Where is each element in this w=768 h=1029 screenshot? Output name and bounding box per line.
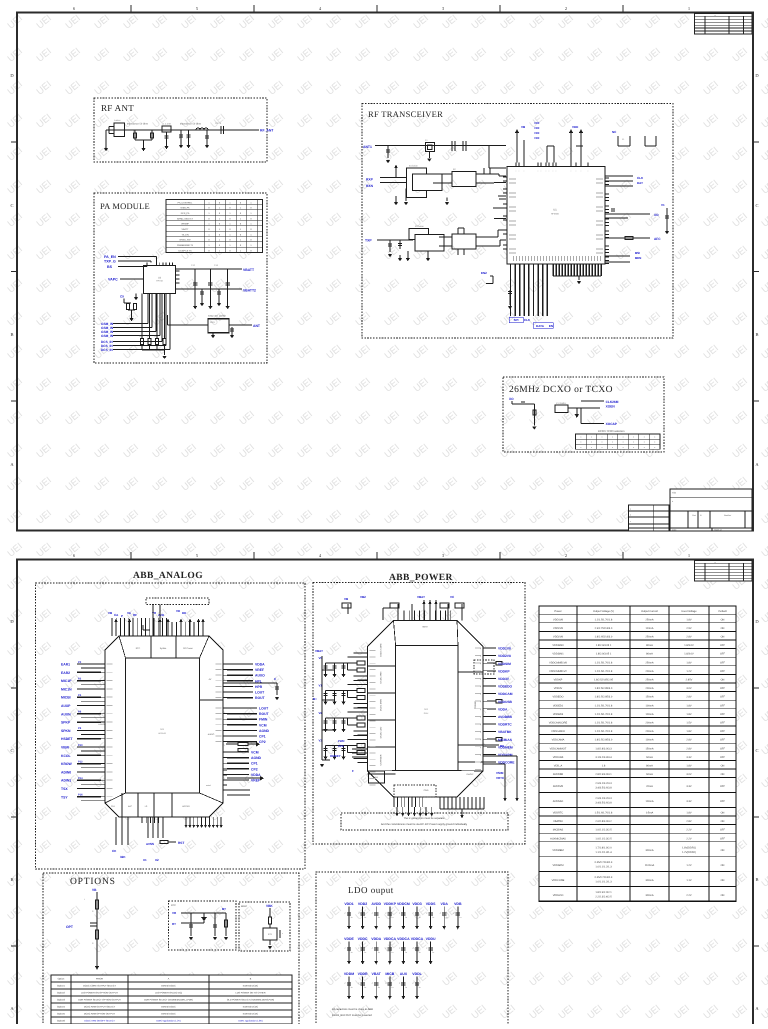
svg-text:i-ch/VBa: i-ch/VBa bbox=[98, 723, 106, 726]
svg-text:X1 26MHz: X1 26MHz bbox=[556, 402, 566, 405]
svg-text:1.8/2.5/2.85/3.0: 1.8/2.5/2.85/3.0 bbox=[595, 696, 613, 699]
svg-text:Default: Default bbox=[718, 610, 726, 613]
svg-text:x: x bbox=[623, 441, 624, 444]
svg-text:RT: RT bbox=[172, 922, 176, 926]
svg-text:x: x bbox=[580, 436, 581, 439]
svg-text:p: p bbox=[480, 747, 481, 749]
svg-text:110mA: 110mA bbox=[646, 627, 654, 630]
svg-text:BS: BS bbox=[107, 265, 113, 269]
svg-text:AFC: AFC bbox=[654, 237, 661, 241]
svg-text:Used Voltage: Used Voltage bbox=[681, 610, 697, 613]
svg-text:EAR1: EAR1 bbox=[61, 663, 70, 667]
svg-text:p: p bbox=[480, 716, 481, 718]
svg-text:PA_EN: PA_EN bbox=[104, 255, 116, 259]
svg-text:VDDED1: VDDED1 bbox=[553, 704, 564, 707]
svg-text:1.8V: 1.8V bbox=[686, 618, 692, 621]
svg-text:AVDDBB: AVDDBB bbox=[498, 715, 512, 719]
svg-text:OFF: OFF bbox=[720, 722, 726, 725]
svg-text:3.3V: 3.3V bbox=[686, 785, 692, 788]
svg-text:ON: ON bbox=[721, 812, 725, 815]
svg-text:Output Voltage (V): Output Voltage (V) bbox=[593, 610, 614, 613]
svg-text:C9: C9 bbox=[120, 295, 124, 299]
svg-text:External DCDC: External DCDC bbox=[243, 1013, 259, 1016]
svg-text:B3 balun: B3 balun bbox=[415, 225, 424, 228]
svg-text:OFF: OFF bbox=[720, 756, 726, 759]
svg-text:AUDIO: AUDIO bbox=[208, 733, 215, 736]
svg-text:1u: 1u bbox=[391, 986, 393, 989]
svg-text:X2: X2 bbox=[155, 858, 159, 862]
svg-text:AUXN: AUXN bbox=[61, 712, 71, 716]
svg-text:1.2/1.5/1.70/1.8: 1.2/1.5/1.70/1.8 bbox=[595, 670, 613, 673]
svg-text:1u: 1u bbox=[391, 951, 393, 954]
svg-text:1.2/1.5/1.70/1.8: 1.2/1.5/1.70/1.8 bbox=[595, 713, 613, 716]
svg-text:x: x bbox=[644, 436, 645, 439]
svg-text:300mA: 300mA bbox=[645, 849, 653, 852]
svg-text:OFF: OFF bbox=[720, 747, 726, 750]
svg-text:1.8V: 1.8V bbox=[686, 812, 692, 815]
svg-text:2.85V: 2.85V bbox=[686, 679, 693, 682]
svg-text:ABB_POWER: ABB_POWER bbox=[389, 573, 453, 583]
svg-text:C3 C4: C3 C4 bbox=[215, 122, 222, 125]
svg-text:VBATT: VBATT bbox=[182, 228, 190, 231]
svg-text:x: x bbox=[580, 441, 581, 444]
svg-text:PRIOR: PRIOR bbox=[96, 978, 104, 981]
svg-text:3.3V: 3.3V bbox=[686, 800, 692, 803]
svg-text:P10: P10 bbox=[78, 744, 83, 747]
svg-text:80mA: 80mA bbox=[646, 644, 653, 647]
svg-text:GSM_IN: GSM_IN bbox=[101, 334, 114, 338]
svg-text:BSI: BSI bbox=[635, 251, 640, 255]
svg-text:1.8V: 1.8V bbox=[686, 661, 692, 664]
svg-text:VDDRTC: VDDRTC bbox=[498, 723, 512, 727]
svg-text:AVD: AVD bbox=[158, 613, 165, 617]
svg-text:x: x bbox=[591, 436, 592, 439]
svg-text:1u: 1u bbox=[405, 986, 407, 989]
svg-text:1.8V: 1.8V bbox=[686, 765, 692, 768]
svg-text:1u: 1u bbox=[391, 916, 393, 919]
svg-text:CLK: CLK bbox=[524, 318, 531, 322]
svg-text:P6: P6 bbox=[78, 711, 82, 714]
svg-text:B+: B+ bbox=[313, 697, 317, 701]
svg-text:OFF: OFF bbox=[720, 837, 726, 840]
svg-text:VAPC: VAPC bbox=[108, 278, 118, 282]
svg-text:OPT: OPT bbox=[66, 925, 74, 929]
svg-text:OFF: OFF bbox=[720, 661, 726, 664]
svg-text:AVSS: AVSS bbox=[146, 842, 154, 846]
svg-text:200mA: 200mA bbox=[645, 730, 653, 733]
svg-text:VRF: VRF bbox=[534, 131, 540, 135]
svg-text:swap ant. Switch: swap ant. Switch bbox=[208, 315, 227, 318]
svg-text:OFF: OFF bbox=[720, 687, 726, 690]
svg-text:ON: ON bbox=[721, 627, 725, 630]
svg-text:DCS_IN: DCS_IN bbox=[101, 348, 113, 352]
svg-text:VBAT: VBAT bbox=[417, 595, 425, 599]
svg-text:CP1: CP1 bbox=[251, 762, 258, 766]
svg-text:1.9/2.1/2.3/2.5: 1.9/2.1/2.3/2.5 bbox=[595, 829, 612, 832]
svg-text:VDD2V8: VDD2V8 bbox=[553, 627, 563, 630]
svg-text:B: B bbox=[755, 332, 758, 337]
svg-text:wrtxd: wrtxd bbox=[206, 784, 211, 787]
svg-text:B: B bbox=[755, 877, 758, 882]
svg-text:Number: Number bbox=[724, 514, 731, 517]
svg-text:VDDCAMCORE: VDDCAMCORE bbox=[549, 722, 568, 725]
svg-text:26MHz DCXO or TCXO: 26MHz DCXO or TCXO bbox=[509, 385, 613, 395]
svg-text:AGND: AGND bbox=[251, 756, 262, 760]
svg-text:Option1: Option1 bbox=[57, 985, 66, 988]
svg-text:CP2: CP2 bbox=[251, 767, 258, 771]
svg-text:VDDCAMA: VDDCAMA bbox=[552, 739, 565, 742]
svg-text:p: p bbox=[480, 671, 481, 673]
svg-text:ADIN1: ADIN1 bbox=[61, 779, 71, 783]
svg-text:2.9/2.75/2.8/3.0: 2.9/2.75/2.8/3.0 bbox=[595, 627, 613, 630]
svg-text:OFF: OFF bbox=[720, 730, 726, 733]
svg-text:ON: ON bbox=[721, 864, 725, 867]
svg-text:100mA: 100mA bbox=[645, 800, 653, 803]
svg-text:DDR2_BUFOUT must be powered: DDR2_BUFOUT must be powered bbox=[332, 1014, 372, 1017]
svg-text:RF_ANT: RF_ANT bbox=[260, 129, 274, 133]
svg-text:OFF: OFF bbox=[720, 785, 726, 788]
svg-text:RF6500: RF6500 bbox=[551, 212, 560, 215]
svg-text:x: x bbox=[602, 436, 603, 439]
svg-text:x: x bbox=[654, 441, 655, 444]
svg-text:VDD2V8: VDD2V8 bbox=[553, 636, 563, 639]
svg-text:VDD1V8: VDD1V8 bbox=[498, 647, 511, 651]
svg-text:VDDA: VDDA bbox=[371, 937, 381, 941]
svg-text:VRF: VRF bbox=[534, 126, 540, 130]
svg-text:AVDDBB: AVDDBB bbox=[553, 773, 564, 776]
svg-text:DDR POWER SELECT (VDDMEM,DDR1,: DDR POWER SELECT (VDDMEM,DDR1,LPDR) bbox=[144, 999, 193, 1002]
svg-text:GSM850/900 TX: GSM850/900 TX bbox=[177, 244, 194, 247]
svg-text:DCS/PCS TX: DCS/PCS TX bbox=[178, 249, 192, 252]
svg-text:x: x bbox=[633, 441, 634, 444]
svg-text:X1: X1 bbox=[143, 858, 147, 862]
svg-text:2: 2 bbox=[565, 553, 567, 558]
svg-text:p: p bbox=[480, 709, 481, 711]
svg-text:All capacitors must be close t: All capacitors must be close to ABB bbox=[332, 1008, 373, 1011]
svg-text:1.8/3.0V: 1.8/3.0V bbox=[684, 653, 694, 656]
svg-text:VDDED3: VDDED3 bbox=[553, 713, 564, 716]
svg-text:1.7/1.8/1.9/2.0: 1.7/1.8/1.9/2.0 bbox=[595, 846, 612, 849]
svg-text:Option5: Option5 bbox=[57, 1013, 66, 1016]
svg-text:RXP: RXP bbox=[366, 178, 374, 182]
svg-text:ON: ON bbox=[721, 679, 725, 682]
svg-text:VDDA: VDDA bbox=[255, 663, 265, 667]
svg-text:1u: 1u bbox=[419, 951, 421, 954]
svg-text:VDDM: VDDM bbox=[344, 972, 354, 976]
svg-text:2.8/2.9/3.0/3.1: 2.8/2.9/3.0/3.1 bbox=[595, 773, 612, 776]
svg-text:1.9/2.1/2.3/2.5: 1.9/2.1/2.3/2.5 bbox=[595, 837, 612, 840]
svg-text:1.0/1.1/1.2/1.3: 1.0/1.1/1.2/1.3 bbox=[595, 866, 612, 869]
svg-text:L1 2.2nH: L1 2.2nH bbox=[162, 123, 171, 126]
svg-text:AVDDVB: AVDDVB bbox=[553, 785, 564, 788]
svg-text:EN2: EN2 bbox=[481, 271, 487, 275]
svg-text:Sheet of: Sheet of bbox=[714, 528, 722, 531]
svg-text:3.0V: 3.0V bbox=[686, 687, 692, 690]
svg-text:VDDCA: VDDCA bbox=[397, 937, 410, 941]
svg-text:2.5V: 2.5V bbox=[686, 627, 692, 630]
svg-text:1.2V(DDR2): 1.2V(DDR2) bbox=[682, 851, 696, 854]
svg-text:2.2V: 2.2V bbox=[686, 894, 692, 897]
svg-text:RST: RST bbox=[178, 841, 184, 845]
svg-text:EAR2: EAR2 bbox=[61, 671, 70, 675]
svg-text:x: x bbox=[591, 446, 592, 449]
svg-text:VB: VB bbox=[92, 888, 97, 892]
svg-text:U1: U1 bbox=[553, 208, 557, 211]
svg-text:AD6548: AD6548 bbox=[158, 732, 166, 735]
svg-text:1.2/1.5/1.70/1.8: 1.2/1.5/1.70/1.8 bbox=[595, 722, 613, 725]
svg-text:VDA: VDA bbox=[441, 902, 449, 906]
svg-text:1.8/2.9/3.05 1: 1.8/2.9/3.05 1 bbox=[596, 653, 612, 656]
svg-text:1.8: 1.8 bbox=[602, 765, 606, 768]
svg-text:VDDMEM: VDDMEM bbox=[552, 849, 563, 852]
svg-text:100mA: 100mA bbox=[645, 704, 653, 707]
svg-text:1.2/1.5/1.70/1.8: 1.2/1.5/1.70/1.8 bbox=[595, 730, 613, 733]
svg-text:x: x bbox=[633, 436, 634, 439]
svg-text:P0: P0 bbox=[78, 661, 82, 664]
svg-text:VDDA: VDDA bbox=[498, 707, 508, 711]
svg-text:p: p bbox=[480, 762, 481, 764]
svg-text:VDD3V: VDD3V bbox=[498, 677, 510, 681]
svg-text:AVC: AVC bbox=[128, 805, 133, 808]
svg-text:MICBIAS: MICBIAS bbox=[553, 829, 564, 832]
svg-text:AUX: AUX bbox=[400, 972, 408, 976]
svg-text:x: x bbox=[644, 441, 645, 444]
svg-text:300mA: 300mA bbox=[645, 894, 653, 897]
svg-text:1.0/1.1/1.2/1.3: 1.0/1.1/1.2/1.3 bbox=[595, 881, 612, 884]
svg-text:VDDE: VDDE bbox=[344, 937, 354, 941]
svg-text:3.1/3.2/3.3/3.4: 3.1/3.2/3.3/3.4 bbox=[595, 756, 612, 759]
svg-text:a: a bbox=[715, 15, 716, 17]
svg-text:1.1V: 1.1V bbox=[686, 879, 692, 882]
svg-text:1u: 1u bbox=[351, 916, 353, 919]
svg-text:1.5V: 1.5V bbox=[686, 722, 692, 725]
svg-text:POWER: POWER bbox=[474, 700, 477, 709]
svg-text:VDDSIM: VDDSIM bbox=[498, 662, 511, 666]
svg-text:C: C bbox=[755, 748, 758, 753]
svg-text:Impedance 50 Ohm: Impedance 50 Ohm bbox=[180, 123, 201, 126]
svg-text:P2: P2 bbox=[78, 677, 82, 680]
svg-text:Impedance 50 Ohm: Impedance 50 Ohm bbox=[127, 123, 148, 126]
svg-text:MICBIAS: MICBIAS bbox=[498, 738, 513, 742]
svg-text:OFF: OFF bbox=[720, 829, 726, 832]
svg-text:Date:: Date: bbox=[672, 528, 677, 531]
svg-text:VREF: VREF bbox=[251, 779, 260, 783]
svg-text:ON: ON bbox=[721, 820, 725, 823]
svg-text:1.8V: 1.8V bbox=[686, 713, 692, 716]
svg-text:1u: 1u bbox=[364, 951, 366, 954]
svg-text:3.4/3.5/3.6/3.8: 3.4/3.5/3.6/3.8 bbox=[595, 801, 612, 804]
svg-text:DCDC ARM OPTION OUTPUT: DCDC ARM OPTION OUTPUT bbox=[84, 1013, 116, 1016]
svg-text:p: p bbox=[480, 732, 481, 734]
svg-text:VDDL: VDDL bbox=[412, 972, 422, 976]
svg-text:AUXP: AUXP bbox=[61, 704, 71, 708]
svg-text:3.3V: 3.3V bbox=[686, 756, 692, 759]
svg-text:1.2V: 1.2V bbox=[686, 670, 692, 673]
svg-text:60mA: 60mA bbox=[646, 756, 653, 759]
svg-text:0.65/0.70/.8/0.9: 0.65/0.70/.8/0.9 bbox=[595, 876, 613, 879]
svg-text:200mA: 200mA bbox=[645, 687, 653, 690]
svg-text:b: b bbox=[630, 514, 631, 517]
svg-text:LDO POWER ON TO OTHER: LDO POWER ON TO OTHER bbox=[236, 992, 266, 995]
svg-text:ON: ON bbox=[721, 765, 725, 768]
svg-text:VDDU: VDDU bbox=[426, 937, 436, 941]
svg-text:1.8/2.5/2.85/2.95: 1.8/2.5/2.85/2.95 bbox=[594, 679, 614, 682]
svg-text:VBAT: VBAT bbox=[422, 626, 428, 629]
svg-text:DCDC ARM OUTPUT SELECT: DCDC ARM OUTPUT SELECT bbox=[84, 1006, 116, 1009]
svg-text:p: p bbox=[480, 678, 481, 680]
svg-text:VRF: VRF bbox=[534, 121, 540, 125]
svg-text:And the coincidences must be v: And the coincidences must be via DC-DC P… bbox=[381, 823, 468, 826]
svg-text:x: x bbox=[623, 446, 624, 449]
svg-text:p: p bbox=[480, 663, 481, 665]
svg-text:FMIN: FMIN bbox=[259, 718, 268, 722]
svg-text:MICB: MICB bbox=[385, 972, 394, 976]
svg-text:1u: 1u bbox=[459, 916, 461, 919]
svg-text:p: p bbox=[480, 656, 481, 658]
svg-text:VDDCM: VDDCM bbox=[397, 902, 410, 906]
svg-text:ON: ON bbox=[721, 849, 725, 852]
svg-text:ONKEY: ONKEY bbox=[330, 754, 341, 758]
svg-text:1u: 1u bbox=[419, 916, 421, 919]
svg-text:p: p bbox=[480, 648, 481, 650]
svg-text:1u: 1u bbox=[405, 951, 407, 954]
svg-text:V1: V1 bbox=[661, 203, 665, 207]
svg-text:80mA: 80mA bbox=[646, 765, 653, 768]
svg-text:ANT1: ANT1 bbox=[363, 145, 372, 149]
svg-text:VBK: VBK bbox=[266, 904, 273, 908]
svg-text:1u: 1u bbox=[351, 986, 353, 989]
svg-text:KPD: KPD bbox=[338, 744, 344, 748]
svg-text:VDB: VDB bbox=[454, 902, 462, 906]
svg-text:Option2: Option2 bbox=[57, 992, 66, 995]
svg-text:1: 1 bbox=[688, 6, 690, 11]
svg-text:VDDKP: VDDKP bbox=[498, 669, 510, 673]
svg-text:KROW: KROW bbox=[61, 762, 73, 766]
svg-text:1.5/1.6/1.70/1.8: 1.5/1.6/1.70/1.8 bbox=[595, 812, 613, 815]
svg-text:1.8V: 1.8V bbox=[686, 704, 692, 707]
svg-text:x: x bbox=[644, 446, 645, 449]
svg-text:VRF: VRF bbox=[534, 136, 540, 140]
svg-text:DCDC ARM ON/OFF SELECT: DCDC ARM ON/OFF SELECT bbox=[84, 1020, 115, 1023]
svg-text:150mA: 150mA bbox=[645, 696, 653, 699]
svg-text:DCDC LDO: DCDC LDO bbox=[380, 726, 383, 738]
svg-text:DATA: DATA bbox=[536, 324, 545, 328]
svg-text:VCM: VCM bbox=[259, 723, 267, 727]
svg-text:F: F bbox=[352, 769, 354, 773]
svg-text:250mA: 250mA bbox=[645, 661, 653, 664]
svg-text:OFF: OFF bbox=[720, 644, 726, 647]
svg-text:VDDC: VDDC bbox=[358, 937, 368, 941]
svg-text:VDD_A: VDD_A bbox=[554, 765, 563, 768]
svg-text:2.6/2.8/3.0/3.2: 2.6/2.8/3.0/3.2 bbox=[595, 820, 612, 823]
svg-text:EN: EN bbox=[549, 324, 553, 328]
svg-text:P8: P8 bbox=[78, 727, 82, 730]
svg-text:OFF: OFF bbox=[720, 653, 726, 656]
svg-text:VDDCA: VDDCA bbox=[411, 937, 424, 941]
svg-text:x: x bbox=[654, 446, 655, 449]
svg-text:Lumex: Lumex bbox=[114, 119, 121, 122]
svg-text:x: x bbox=[612, 436, 613, 439]
svg-text:OFF: OFF bbox=[720, 739, 726, 742]
svg-text:DCDC ARM: DCDC ARM bbox=[380, 671, 383, 683]
svg-text:p: p bbox=[480, 724, 481, 726]
svg-text:VRAMP: VRAMP bbox=[181, 223, 189, 226]
svg-text:DDR POWER SELECT OPTION OUTPUT: DDR POWER SELECT OPTION OUTPUT bbox=[78, 999, 121, 1002]
svg-text:PMU: PMU bbox=[424, 712, 429, 715]
svg-text:OPTIONS: OPTIONS bbox=[70, 877, 116, 887]
svg-text:ON: ON bbox=[721, 894, 725, 897]
svg-text:P12: P12 bbox=[78, 760, 83, 763]
svg-text:CHARGER: CHARGER bbox=[380, 754, 383, 765]
svg-text:LDO ouput: LDO ouput bbox=[348, 885, 394, 895]
svg-text:2.8V: 2.8V bbox=[686, 739, 692, 742]
svg-text:VDDCMMB1V8: VDDCMMB1V8 bbox=[549, 661, 567, 664]
svg-text:ON: ON bbox=[721, 636, 725, 639]
svg-text:300mA: 300mA bbox=[645, 879, 653, 882]
svg-text:WRTXD: WRTXD bbox=[182, 805, 190, 808]
svg-text:LDO POWER ON (DC-DC): LDO POWER ON (DC-DC) bbox=[155, 992, 182, 995]
svg-text:1u: 1u bbox=[432, 951, 434, 954]
svg-text:250mA: 250mA bbox=[645, 618, 653, 621]
svg-text:ADIN0: ADIN0 bbox=[61, 770, 71, 774]
svg-text:GND: GND bbox=[424, 789, 429, 792]
svg-text:2.8V: 2.8V bbox=[686, 820, 692, 823]
svg-text:1.2V: 1.2V bbox=[686, 864, 692, 867]
svg-text:VDDCORE: VDDCORE bbox=[552, 879, 565, 882]
svg-text:250mA: 250mA bbox=[645, 679, 653, 682]
svg-text:p: p bbox=[480, 754, 481, 756]
svg-text:RF ANT: RF ANT bbox=[101, 103, 134, 113]
svg-text:VDDARM: VDDARM bbox=[552, 864, 563, 867]
svg-text:VBATT2: VBATT2 bbox=[243, 289, 256, 293]
svg-text:1.8/2.9/3.05 1: 1.8/2.9/3.05 1 bbox=[596, 644, 612, 647]
svg-text:2: 2 bbox=[565, 6, 567, 11]
svg-text:p: p bbox=[480, 694, 481, 696]
svg-text:1u: 1u bbox=[378, 951, 380, 954]
svg-text:DAT: DAT bbox=[637, 181, 643, 185]
svg-text:MIC1N: MIC1N bbox=[61, 687, 72, 691]
svg-text:SPKN: SPKN bbox=[61, 729, 71, 733]
svg-text:CP2: CP2 bbox=[259, 740, 266, 744]
svg-text:x: x bbox=[580, 446, 581, 449]
svg-text:VCM: VCM bbox=[251, 751, 259, 755]
svg-text:80mA: 80mA bbox=[646, 653, 653, 656]
svg-text:LOUT: LOUT bbox=[259, 707, 269, 711]
svg-text:p: p bbox=[480, 701, 481, 703]
svg-text:VBATBK: VBATBK bbox=[553, 820, 563, 823]
svg-text:1.1/1.2/1.3/1.4: 1.1/1.2/1.3/1.4 bbox=[595, 851, 612, 854]
svg-text:DCXO-TCXO selection: DCXO-TCXO selection bbox=[598, 430, 625, 433]
svg-text:VBAT: VBAT bbox=[315, 649, 323, 653]
svg-text:CP1: CP1 bbox=[259, 735, 266, 739]
svg-text:Option4: Option4 bbox=[57, 1006, 66, 1009]
svg-text:RF TRANSCEIVER: RF TRANSCEIVER bbox=[368, 109, 443, 119]
svg-text:x: x bbox=[612, 441, 613, 444]
svg-text:ANT: ANT bbox=[253, 324, 261, 328]
svg-text:PA7x8: PA7x8 bbox=[156, 280, 163, 283]
svg-text:1u: 1u bbox=[364, 916, 366, 919]
svg-text:100mA: 100mA bbox=[645, 713, 653, 716]
svg-text:OFF: OFF bbox=[720, 800, 726, 803]
svg-text:p: p bbox=[480, 686, 481, 688]
svg-text:VDDS: VDDS bbox=[426, 902, 436, 906]
svg-text:OFF: OFF bbox=[720, 670, 726, 673]
svg-text:Power: Power bbox=[554, 610, 561, 613]
svg-text:1.8/2.5/2.85/3.0: 1.8/2.5/2.85/3.0 bbox=[595, 687, 613, 690]
svg-text:MIC1P: MIC1P bbox=[61, 679, 72, 683]
svg-text:XO: XO bbox=[509, 397, 514, 401]
svg-text:x: x bbox=[591, 441, 592, 444]
